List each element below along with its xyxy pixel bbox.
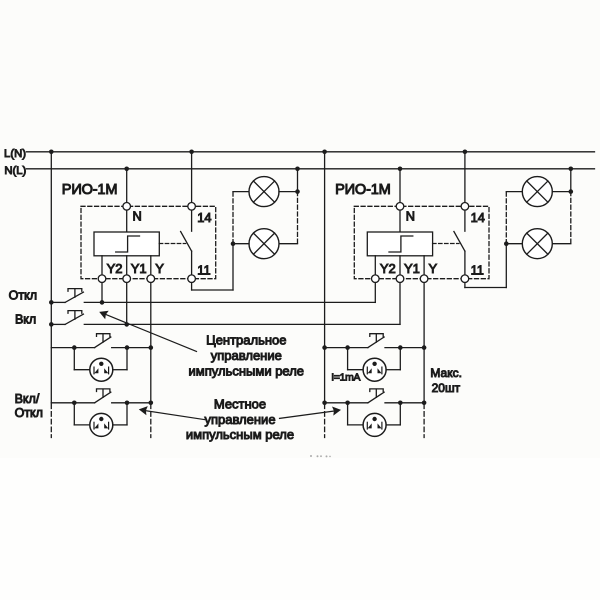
svg-text:Y2: Y2 <box>380 261 396 276</box>
svg-text:РИО-1М: РИО-1М <box>62 182 118 198</box>
svg-text:Y2: Y2 <box>107 261 123 276</box>
svg-text:управление: управление <box>204 412 275 427</box>
svg-text:N(L): N(L) <box>4 165 26 177</box>
svg-text:управление: управление <box>211 348 282 363</box>
svg-text:14: 14 <box>197 210 211 225</box>
svg-text:11: 11 <box>197 263 210 278</box>
svg-text:Макс.: Макс. <box>430 366 462 380</box>
svg-text:импульсным реле: импульсным реле <box>186 427 294 442</box>
svg-text:L(N): L(N) <box>4 148 26 160</box>
svg-text:Y1: Y1 <box>131 261 147 276</box>
svg-text:20шт: 20шт <box>432 381 461 395</box>
svg-text:14: 14 <box>471 210 485 225</box>
svg-text:N: N <box>133 209 142 224</box>
svg-text:Y: Y <box>429 261 438 276</box>
svg-text:Откл: Откл <box>15 406 43 420</box>
svg-text:11: 11 <box>471 263 484 278</box>
svg-text:N: N <box>406 209 415 224</box>
svg-text:Вкл/: Вкл/ <box>15 392 40 406</box>
svg-text:Y1: Y1 <box>404 261 420 276</box>
svg-text:РИО-1М: РИО-1М <box>335 182 391 198</box>
svg-text:Откл: Откл <box>9 288 37 302</box>
svg-text:Вкл: Вкл <box>15 313 36 327</box>
svg-text:Местное: Местное <box>214 396 266 411</box>
svg-text:Центральное: Центральное <box>206 333 286 348</box>
svg-text:I=1mA: I=1mA <box>331 373 360 384</box>
svg-text:Y: Y <box>155 261 164 276</box>
svg-text:импульсными реле: импульсными реле <box>189 363 305 378</box>
